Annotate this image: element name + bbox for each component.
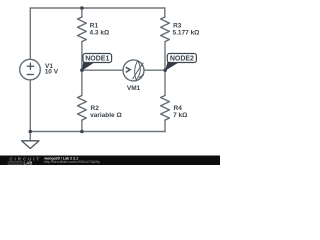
- svg-text:variable Ω: variable Ω: [90, 112, 122, 119]
- svg-text:LAB: LAB: [24, 160, 33, 165]
- svg-text:7 kΩ: 7 kΩ: [173, 112, 187, 119]
- svg-text:NODE2: NODE2: [170, 56, 194, 63]
- svg-text:VM1: VM1: [127, 85, 141, 92]
- svg-text:http://circuitlab.com/c/93hx27: http://circuitlab.com/c/93hx276j49p: [44, 160, 100, 164]
- svg-text:5.177 kΩ: 5.177 kΩ: [173, 29, 200, 36]
- svg-text:R1: R1: [90, 23, 99, 30]
- svg-text:NODE1: NODE1: [85, 56, 109, 63]
- svg-text:10 V: 10 V: [45, 69, 59, 76]
- svg-text:4.3 kΩ: 4.3 kΩ: [90, 30, 110, 37]
